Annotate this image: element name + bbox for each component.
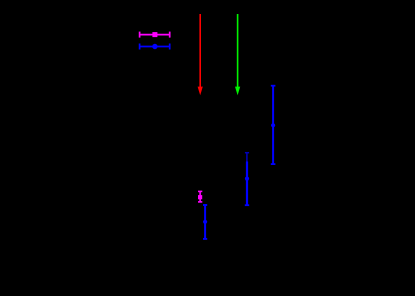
blue circle marker point 2 [245, 177, 249, 181]
magenta errorbar point (x=200) [198, 191, 202, 202]
blue circle marker point 3 [203, 220, 207, 224]
blue errorbar point 3 (x=205) [203, 205, 207, 239]
legend blue errorbar [140, 44, 170, 50]
blue errorbar point 2 upper dim segment (x=247) [245, 153, 249, 162]
red arrow [198, 14, 203, 95]
blue circle marker point 1 [271, 123, 275, 127]
blue errorbar point 2 (x=247) [245, 162, 249, 206]
legend magenta errorbar [140, 32, 170, 38]
green arrow [235, 14, 240, 95]
blue errorbar point 1 (x=273) [271, 86, 276, 164]
legend blue circle marker [152, 44, 157, 49]
magenta square marker [198, 195, 202, 199]
legend magenta square marker [152, 32, 157, 37]
